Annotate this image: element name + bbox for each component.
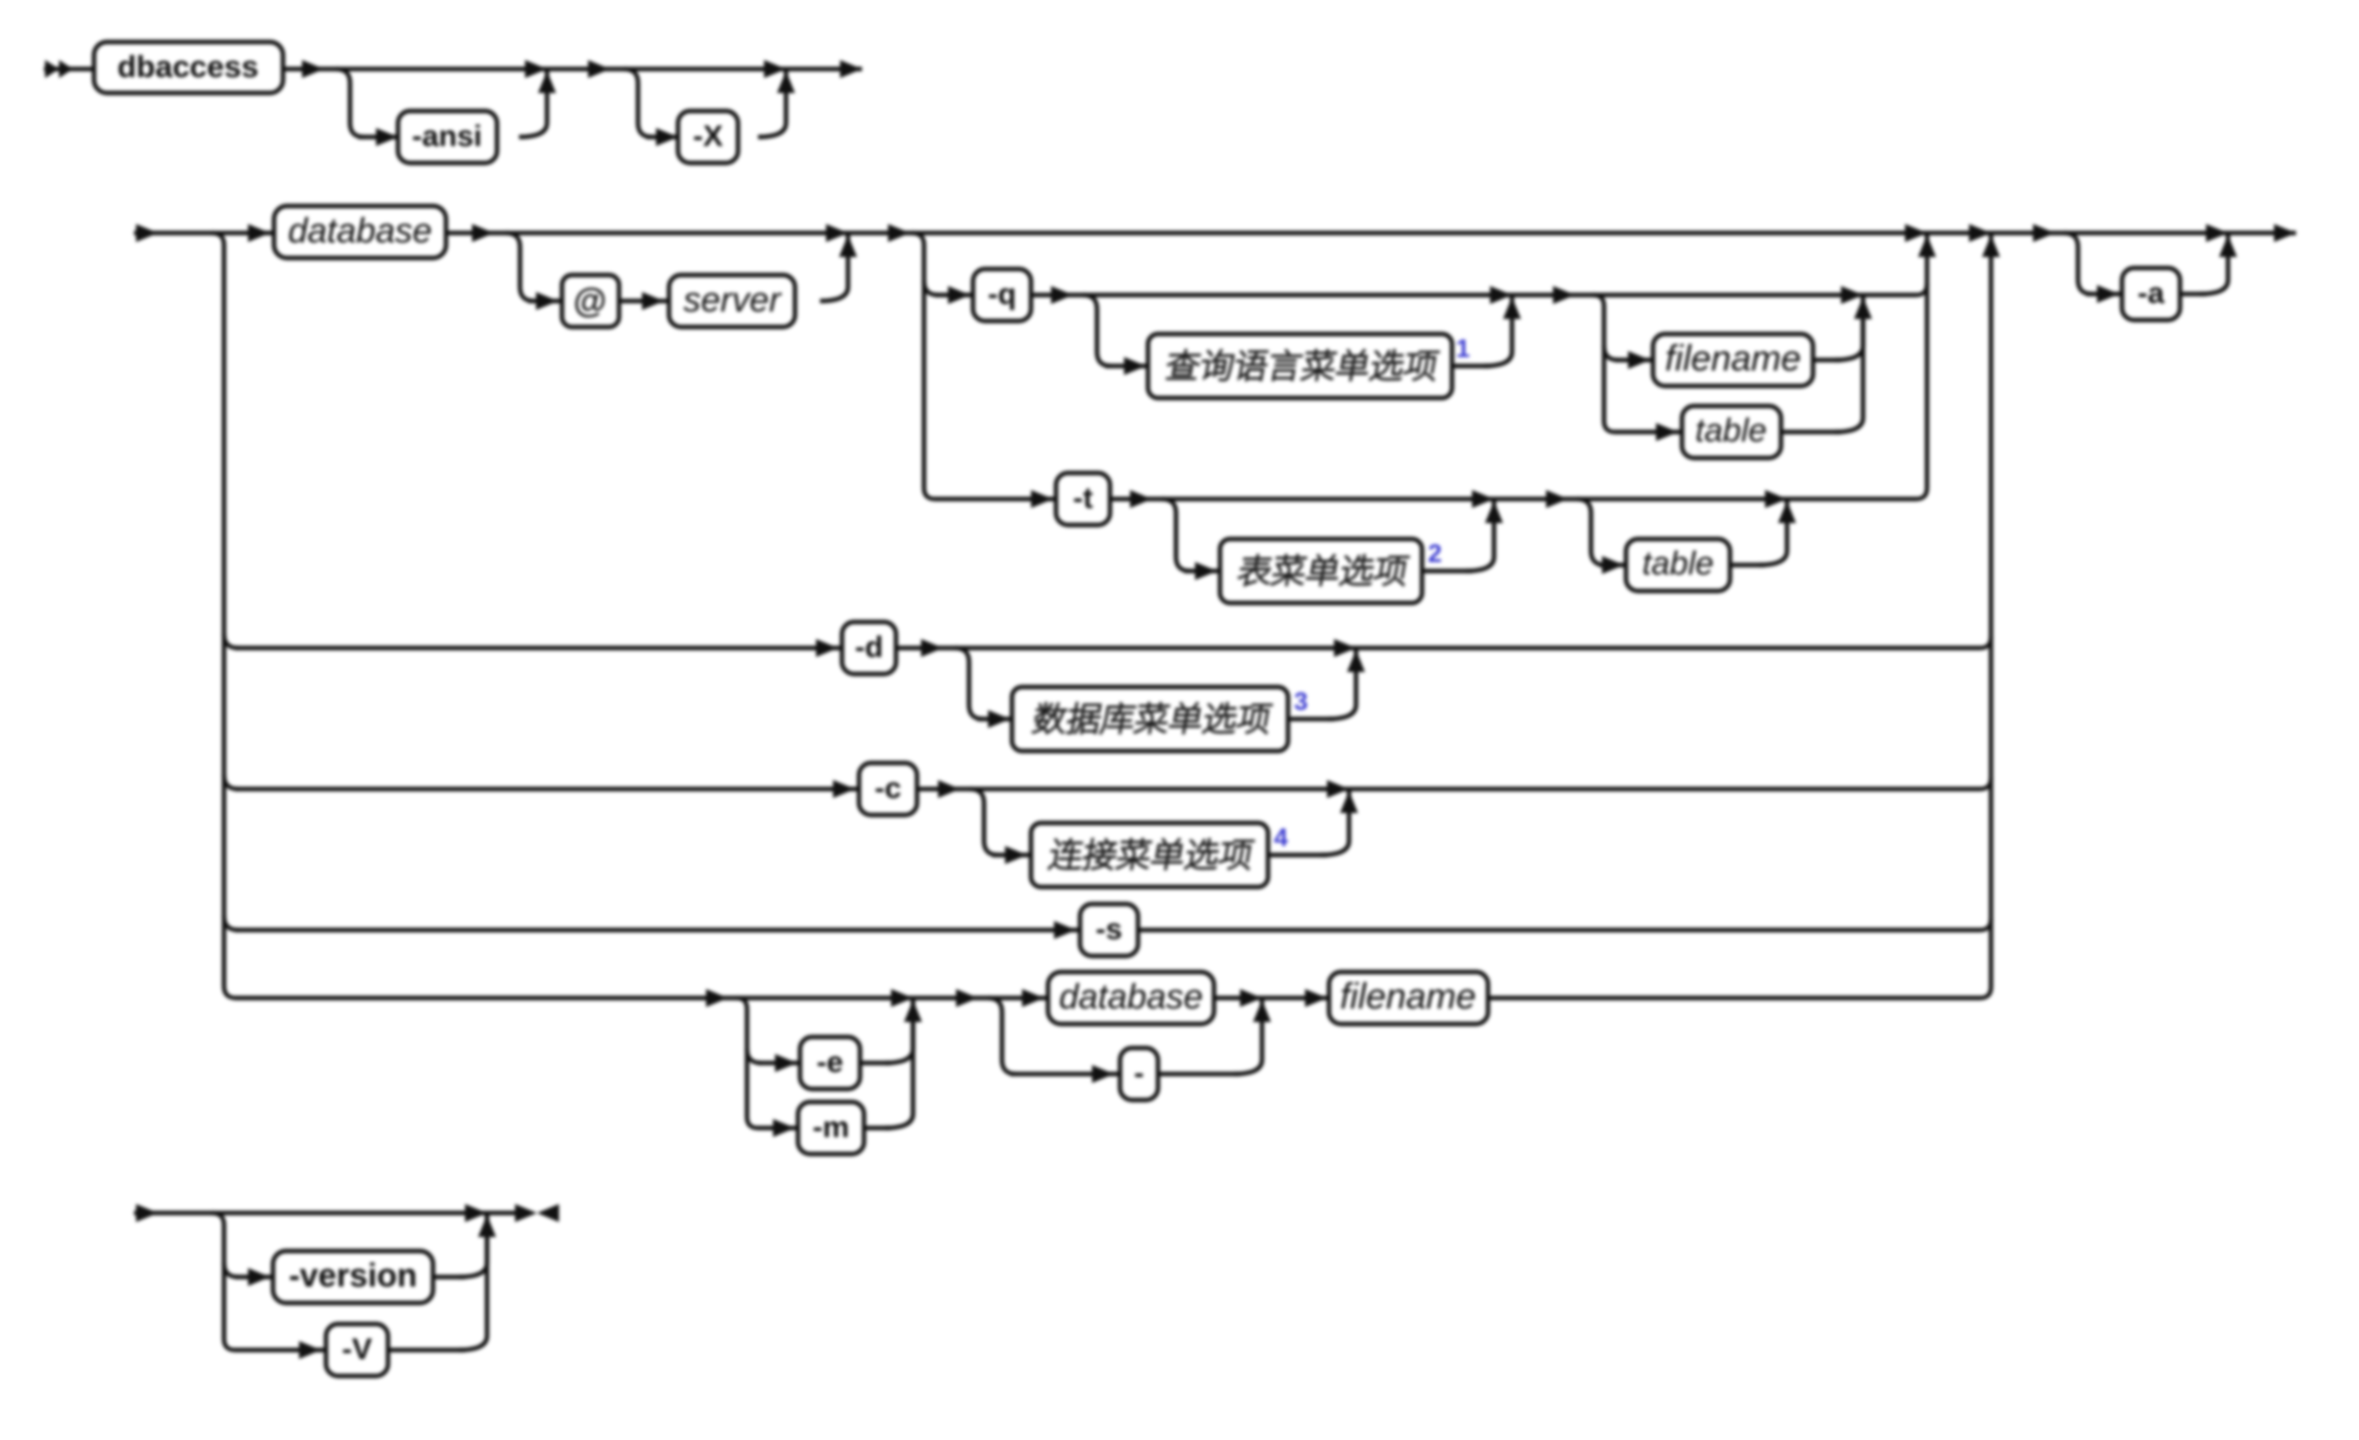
row 3 end wire and terminator (487, 1204, 559, 1222)
keyword box -s (1080, 904, 1138, 956)
rail elbow to filename row (1604, 346, 1618, 360)
wire into -ansi with arrowhead (358, 128, 398, 146)
svg-text:-q: -q (988, 278, 1016, 311)
wire into -X with arrowhead (646, 128, 678, 146)
wire after -c (917, 780, 970, 798)
merge wire up from -a (2180, 235, 2237, 294)
skip wire over version options (212, 1204, 487, 1222)
variable box table (2) (1626, 539, 1730, 591)
footnote 2 (1428, 540, 1442, 568)
skip wire over -ansi option (336, 60, 547, 78)
variable box filename (2) (1329, 972, 1488, 1024)
merge wire up from -V (388, 1215, 487, 1350)
skip wire over database menu option (955, 639, 1356, 657)
variable box database (274, 206, 446, 258)
branch wire down to -ansi (336, 69, 364, 137)
merge wire up from database menu option (1288, 650, 1365, 719)
-d row wire to right rail (1356, 637, 1991, 648)
keyword box -q (973, 269, 1031, 321)
box 表菜单选项 (table menu options) (1220, 539, 1422, 603)
skip wire over connection menu option (970, 780, 1349, 798)
keyword box -X (678, 111, 738, 163)
keyword box -m (798, 1102, 864, 1154)
branch rail down to -version and -V rows (212, 1213, 235, 1350)
keyword box dbaccess (94, 42, 283, 93)
wire into -c with arrowhead (235, 780, 859, 798)
wire into @ with arrowhead (528, 292, 562, 310)
skip wire over filename/table choice (1593, 286, 1863, 304)
wire on -e/-m row (236, 989, 737, 1007)
merge wire up from table menu option (1422, 501, 1503, 571)
wire into filename with arrowhead (1615, 351, 1653, 369)
branch wire down to database menu option box (955, 648, 983, 719)
branch wire down to table (1577, 499, 1605, 565)
branch wire down to -X (624, 69, 652, 137)
svg-text:-a: -a (2138, 277, 2165, 310)
keyword box -d (842, 622, 896, 674)
wire on -t row before table choice (1494, 490, 1577, 508)
wire into table(2) with arrowhead (1599, 556, 1626, 574)
rail elbow to -e row (747, 1049, 761, 1063)
wire after -q (1031, 286, 1083, 304)
rail elbow to -s row (224, 916, 238, 930)
wire into database(2) with arrowhead (988, 989, 1048, 1007)
wire into table menu option with arrowhead (1184, 562, 1220, 580)
wire into -s with arrowhead (235, 921, 1080, 939)
merge wire up from connection menu option (1268, 791, 1358, 855)
-e/-m row wire to right rail (1488, 987, 1991, 998)
box 查询语言菜单选项 (query language menu options) (1148, 334, 1452, 398)
svg-text:3: 3 (1294, 688, 1308, 716)
svg-text:table: table (1695, 412, 1767, 449)
right merge rail of row 2 (1982, 235, 2000, 987)
-q row merge into group rail (1863, 284, 1927, 295)
branch rail down to -q and -t rows (912, 233, 935, 499)
skip wire over optional table (1577, 490, 1787, 508)
wire into -a with arrowhead (2086, 285, 2122, 303)
merge wire up from -ansi (519, 71, 556, 137)
wire into table with arrowhead (1615, 423, 1682, 441)
wire into -version with arrowhead (235, 1268, 273, 1286)
wire into database menu option with arrowhead (977, 710, 1012, 728)
-t row merge into group rail (1787, 488, 1927, 499)
svg-text:-s: -s (1096, 913, 1123, 946)
wire into - with arrowhead (1010, 1065, 1120, 1083)
svg-text:database: database (288, 211, 432, 250)
wire into -q with arrowhead (935, 286, 973, 304)
skip wire over table menu option (1162, 490, 1494, 508)
svg-text:-version: -version (289, 1257, 417, 1294)
svg-text:-c: -c (875, 772, 902, 805)
keyword box -t (1056, 473, 1110, 525)
svg-text:2: 2 (1428, 540, 1442, 568)
footnote 3 (1294, 688, 1308, 716)
wire @ to server with arrowhead (619, 292, 669, 310)
wire into -t with arrowhead (935, 490, 1056, 508)
variable box table (1682, 406, 1781, 458)
branch wire down to query-language menu option box (1083, 295, 1111, 366)
wire between option groups (547, 60, 624, 78)
svg-text:filename: filename (1665, 338, 1801, 379)
main wire after merge rail (1927, 224, 2064, 242)
keyword box -a (2122, 268, 2180, 320)
rail elbow to -c row (224, 775, 238, 789)
merge wire up from -version (433, 1215, 496, 1277)
branch wire down to - (stdin) (988, 998, 1016, 1074)
-c row wire to right rail (1349, 778, 1991, 789)
wire on -q row before file/table choice (1512, 286, 1593, 304)
footnote 4 (1274, 824, 1288, 852)
footnote 1 (1456, 335, 1470, 363)
wire into connection menu option with arrowhead (992, 846, 1031, 864)
merge wire up from query-language menu option (1452, 297, 1521, 366)
start of row 2 (134, 224, 212, 242)
start of row 1 (double arrowheads) (44, 60, 94, 78)
branch rail down to -e and -m rows (737, 998, 758, 1128)
group rail up to main row (1918, 235, 1936, 488)
svg-text:1: 1 (1456, 335, 1470, 363)
svg-text:-t: -t (1073, 482, 1093, 515)
skip wire over query-language menu option (1083, 286, 1512, 304)
branch wire down to @ (506, 233, 534, 301)
merge wire up from -e (860, 1000, 922, 1063)
row 2 trailing wire with continue arrow (2228, 224, 2296, 242)
box 连接菜单选项 (connection menu options) (1031, 823, 1268, 887)
wire after dbaccess with arrowhead (283, 60, 336, 78)
left branch rail of row 2 (212, 233, 236, 998)
svg-text:@: @ (573, 282, 606, 320)
merge wire up from table (1781, 297, 1863, 432)
keyword box @ (562, 275, 619, 327)
rail elbow to -version row (224, 1263, 238, 1277)
keyword box -e (800, 1037, 860, 1089)
keyword box - (hyphen) (1120, 1048, 1158, 1100)
wire into -V with arrowhead (235, 1341, 326, 1359)
keyword box -version (273, 1251, 433, 1303)
wire after -t (1110, 490, 1162, 508)
svg-text:-e: -e (817, 1046, 844, 1079)
merge wire up from filename (1813, 297, 1872, 360)
variable box server (669, 275, 795, 327)
wire into query-language menu option with arrowhead (1105, 357, 1148, 375)
-s row wire to right rail (1138, 919, 1991, 930)
branch wire down to table menu option box (1162, 499, 1190, 571)
svg-text:dbaccess: dbaccess (117, 49, 258, 84)
keyword box -V (326, 1324, 388, 1376)
variable box database (2) (1048, 972, 1214, 1024)
skip wire over @server option (506, 224, 848, 242)
svg-text:-d: -d (855, 631, 883, 664)
svg-text:server: server (683, 280, 782, 319)
wire before database/- choice (913, 989, 988, 1007)
wire into database with arrowhead (212, 224, 274, 242)
wire after database (446, 224, 506, 242)
wire after -d (896, 639, 955, 657)
branch rail down to filename and table rows (1593, 295, 1615, 432)
skip wire over -e/-m choice (737, 989, 913, 1007)
branch wire down to connection menu option box (970, 789, 998, 855)
merge wire up from -X (758, 71, 795, 137)
merge wire up from table(2) (1730, 501, 1796, 565)
wire into -m with arrowhead (758, 1119, 798, 1137)
box 数据库菜单选项 (database menu options) (1012, 687, 1288, 751)
svg-text:-ansi: -ansi (412, 120, 482, 153)
skip wire over -a option (2064, 224, 2228, 242)
branch wire down to -a (2064, 233, 2092, 294)
keyword box -ansi (398, 111, 497, 163)
wire into -d with arrowhead (235, 639, 842, 657)
keyword box -c (859, 763, 917, 815)
svg-text:table: table (1642, 545, 1714, 582)
svg-text:database: database (1059, 977, 1203, 1016)
variable box filename (1653, 334, 1813, 386)
merge wire up from server (820, 235, 857, 301)
row 1 trailing wire with continue arrow (786, 60, 862, 78)
wire into filename(2) with arrowhead (1262, 989, 1329, 1007)
wire into -e with arrowhead (758, 1054, 800, 1072)
svg-text:-V: -V (342, 1333, 372, 1366)
svg-text:filename: filename (1340, 976, 1476, 1017)
svg-text:4: 4 (1274, 824, 1288, 852)
svg-text:-m: -m (813, 1111, 850, 1144)
skip wire over -X option (624, 60, 786, 78)
merge wire up from - (1158, 1000, 1271, 1074)
svg-text:-X: -X (693, 120, 723, 153)
main wire to -q/-t group (848, 224, 918, 242)
start of row 3 (134, 1204, 212, 1222)
merge wire up from -m (864, 1000, 913, 1128)
svg-text:-: - (1134, 1057, 1144, 1090)
rail elbow to -d row (224, 634, 238, 648)
merge wire after database(2) (1214, 989, 1262, 1007)
main wire over option rows (918, 224, 1927, 242)
rail elbow to -q row (924, 281, 938, 295)
